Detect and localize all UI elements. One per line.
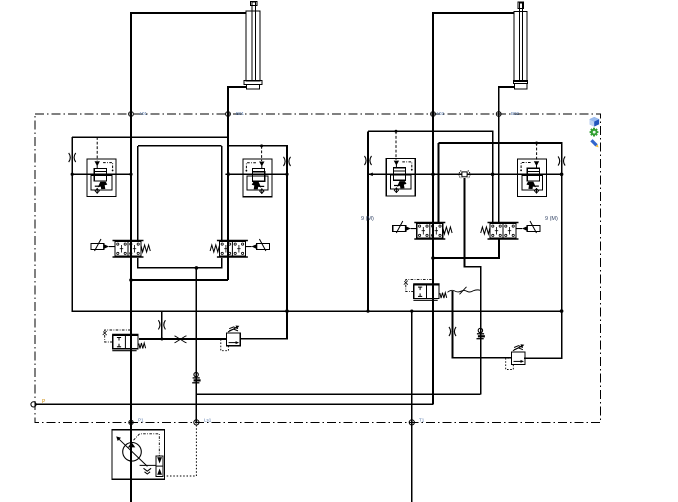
svg-text:A01: A01 xyxy=(139,111,148,116)
svg-text:B01: B01 xyxy=(236,111,245,116)
svg-text:9 (M): 9 (M) xyxy=(361,216,374,222)
svg-text:P1: P1 xyxy=(138,418,144,423)
svg-text:B02: B02 xyxy=(511,111,520,116)
svg-text:9 (M): 9 (M) xyxy=(545,216,558,222)
svg-text:A02: A02 xyxy=(436,111,445,116)
svg-text:T1: T1 xyxy=(419,418,425,423)
svg-text:Ls1: Ls1 xyxy=(204,418,212,423)
